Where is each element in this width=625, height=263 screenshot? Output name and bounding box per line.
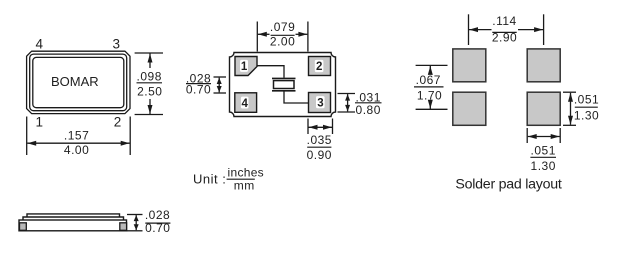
svg-text:.067: .067: [416, 73, 441, 87]
svg-text:4: 4: [241, 98, 248, 110]
svg-text:1.70: 1.70: [417, 88, 442, 102]
svg-text:Solder pad layout: Solder pad layout: [455, 177, 561, 193]
svg-text:0.70: 0.70: [145, 221, 170, 235]
svg-text:2: 2: [316, 61, 322, 73]
svg-text:.051: .051: [531, 144, 556, 158]
svg-text:0.80: 0.80: [356, 103, 381, 117]
svg-text:inches: inches: [228, 166, 265, 180]
svg-text:1.30: 1.30: [574, 109, 599, 123]
svg-text:3: 3: [112, 37, 120, 52]
svg-text:1.30: 1.30: [531, 159, 556, 173]
svg-text:.079: .079: [270, 20, 295, 34]
svg-text:0.70: 0.70: [186, 83, 211, 97]
svg-text:BOMAR: BOMAR: [51, 74, 99, 89]
svg-text:1: 1: [241, 61, 248, 73]
svg-text:1: 1: [36, 115, 44, 130]
svg-text:2: 2: [114, 115, 122, 130]
svg-text:2.50: 2.50: [137, 85, 162, 99]
svg-text:4: 4: [36, 37, 44, 52]
svg-text:0.90: 0.90: [307, 148, 332, 162]
svg-text:mm: mm: [234, 179, 255, 193]
svg-text:.114: .114: [492, 14, 516, 28]
svg-text:.051: .051: [574, 92, 599, 106]
svg-text:.035: .035: [307, 133, 332, 147]
svg-text:.098: .098: [137, 70, 162, 84]
svg-text:2.90: 2.90: [492, 31, 517, 45]
svg-text:4.00: 4.00: [64, 143, 89, 157]
svg-text:2.00: 2.00: [270, 35, 295, 49]
svg-text:.157: .157: [64, 128, 89, 142]
svg-text:Unit :: Unit :: [193, 171, 226, 186]
svg-text:3: 3: [317, 98, 323, 110]
